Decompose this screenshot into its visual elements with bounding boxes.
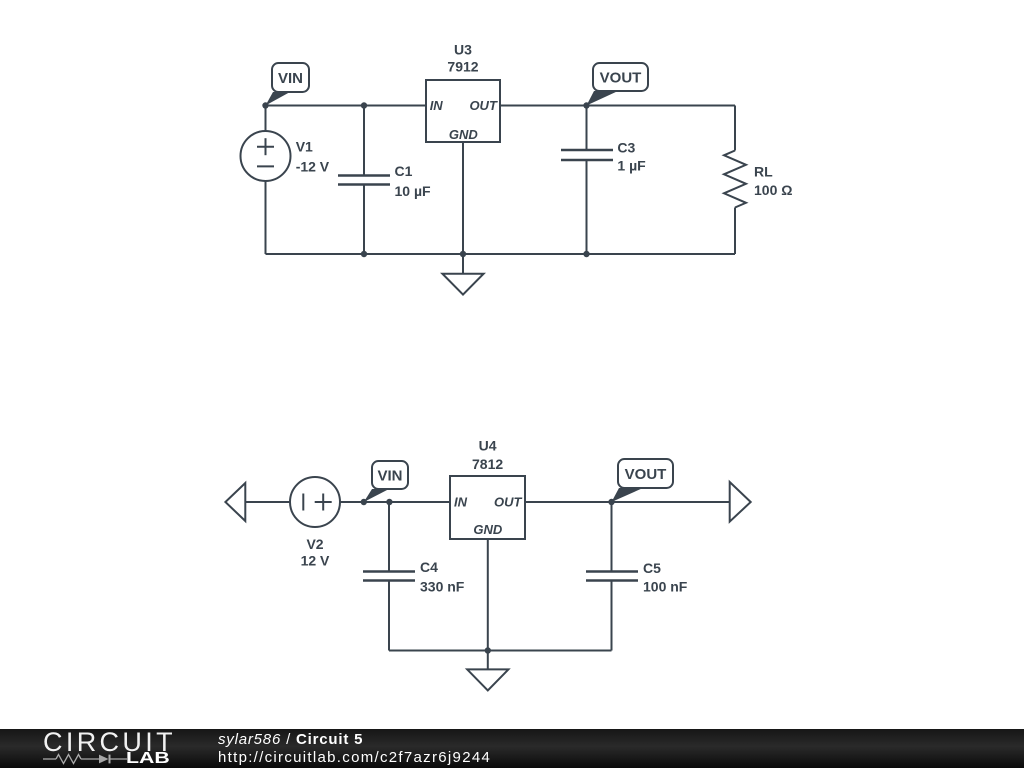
wire C5 bottom — [611, 581, 613, 651]
svg-text:12 V: 12 V — [301, 553, 330, 569]
svg-text:RL: RL — [754, 163, 773, 179]
voltage source V2 — [290, 477, 340, 527]
svg-text:GND: GND — [473, 522, 503, 537]
footer title line — [218, 732, 363, 747]
svg-text:OUT: OUT — [469, 98, 498, 113]
node GND rail junction dot (top) — [460, 251, 466, 257]
svg-text:100 Ω: 100 Ω — [754, 182, 792, 198]
wire C5 top — [611, 502, 613, 572]
CircuitLab logo wordmark LAB — [126, 751, 170, 767]
node VIN junction dot (bottom) — [361, 499, 367, 505]
capacitor C3 — [561, 150, 613, 160]
svg-text:-12 V: -12 V — [296, 158, 330, 174]
wire C4 bottom — [388, 581, 390, 651]
wire U4.GND — [487, 539, 489, 651]
wire left terminal to V2 — [245, 501, 290, 503]
svg-text:VIN: VIN — [377, 467, 402, 484]
wire V1 bottom — [265, 181, 267, 254]
wire V2 to U4.IN — [340, 501, 450, 503]
svg-text:C3: C3 — [617, 140, 635, 156]
wire C1 bottom — [363, 185, 365, 255]
wire RL bottom — [734, 208, 736, 255]
node GND rail junction dot (bottom) — [485, 647, 491, 653]
wire U3.GND — [462, 142, 464, 254]
wire bottom rail — [266, 253, 736, 255]
wire bottom rail (circuit 2) — [389, 650, 612, 652]
wire RL top — [734, 106, 736, 151]
svg-text:10 µF: 10 µF — [395, 183, 432, 199]
svg-text:VOUT: VOUT — [625, 466, 667, 483]
net flag VIN (bottom) — [364, 461, 408, 502]
capacitor C5 — [586, 572, 638, 581]
svg-text:VOUT: VOUT — [600, 69, 642, 86]
terminal (left, input) — [225, 483, 245, 521]
wire V1 top — [265, 106, 267, 132]
svg-text:U3: U3 — [454, 41, 472, 57]
terminal (right, output) — [730, 482, 751, 522]
svg-text:V1: V1 — [296, 139, 313, 155]
node C4 top junction dot — [386, 499, 392, 505]
svg-text:C4: C4 — [420, 559, 438, 575]
svg-text:OUT: OUT — [494, 495, 523, 510]
svg-text:7812: 7812 — [472, 456, 503, 472]
node VOUT junction dot (bottom) — [608, 499, 614, 505]
ground symbol (bottom circuit) — [467, 651, 508, 691]
footer url line — [218, 750, 491, 765]
svg-text:V2: V2 — [306, 536, 323, 552]
node VOUT junction dot (top) — [583, 102, 589, 108]
CircuitLab logo resistor-diode glyph — [43, 753, 129, 765]
node C1 bottom junction dot — [361, 251, 367, 257]
node C1 top junction dot — [361, 102, 367, 108]
regulator U4 box — [450, 476, 525, 539]
svg-text:VIN: VIN — [278, 70, 303, 87]
voltage source V1 — [241, 131, 291, 181]
wire C3 bottom — [586, 160, 588, 254]
regulator U3 box — [426, 80, 500, 142]
svg-text:1 µF: 1 µF — [617, 158, 646, 174]
net flag VIN (top) — [266, 63, 310, 106]
net flag VOUT (top) — [587, 63, 649, 106]
wire C4 top — [388, 502, 390, 572]
svg-text:IN: IN — [454, 495, 468, 510]
svg-text:C1: C1 — [395, 163, 413, 179]
capacitor C4 — [363, 572, 415, 581]
ground symbol (top circuit) — [442, 254, 483, 295]
resistor RL — [724, 151, 746, 208]
node VIN junction dot (top) — [262, 102, 268, 108]
net flag VOUT (bottom) — [612, 459, 674, 502]
svg-text:100 nF: 100 nF — [643, 578, 688, 594]
svg-text:7912: 7912 — [447, 59, 478, 75]
wire top rail VIN to U3.IN — [266, 105, 427, 107]
wire C1 top — [363, 106, 365, 176]
svg-text:U4: U4 — [479, 437, 497, 453]
node C3 bottom junction dot — [583, 251, 589, 257]
wire C3 top — [586, 106, 588, 151]
wire U3.OUT to RL top — [500, 105, 735, 107]
svg-text:C5: C5 — [643, 560, 661, 576]
capacitor C1 — [338, 176, 390, 185]
svg-text:GND: GND — [449, 127, 479, 142]
wire U4.OUT to right terminal — [525, 501, 730, 503]
footer bar — [0, 729, 1024, 768]
CircuitLab logo wordmark CIRCUIT — [43, 729, 176, 756]
svg-text:IN: IN — [430, 98, 444, 113]
svg-text:330 nF: 330 nF — [420, 579, 465, 595]
